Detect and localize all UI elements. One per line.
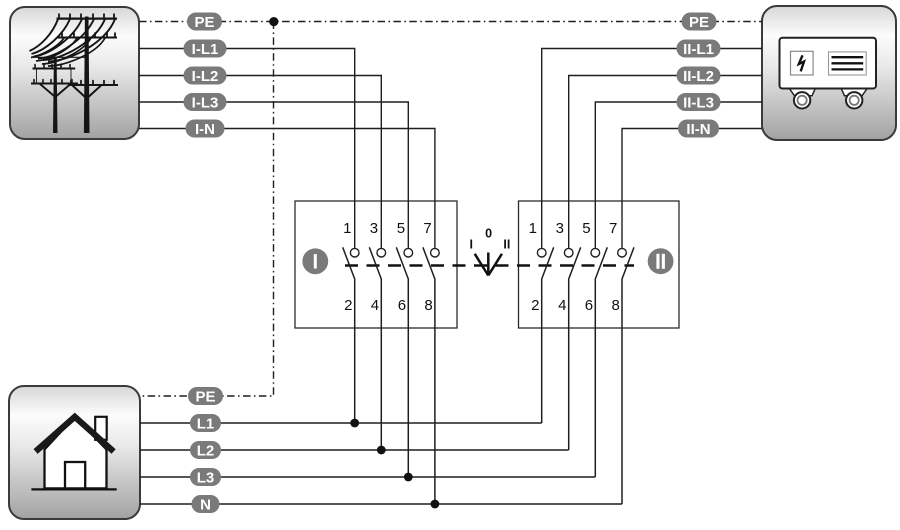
svg-text:1: 1 bbox=[343, 220, 351, 237]
svg-text:II-L3: II-L3 bbox=[683, 94, 714, 111]
junction node L3 bbox=[404, 473, 413, 482]
switch S-I contact circles bbox=[350, 248, 439, 257]
terminal pill PE (house) bbox=[188, 387, 223, 405]
wire II-L2 bbox=[569, 76, 762, 250]
switch S-I pole 5-6 blade bbox=[396, 247, 408, 477]
mechanical coupling link (dashed) bbox=[345, 264, 634, 266]
terminal pill L2 bbox=[190, 441, 221, 459]
pin numbers switch I top bbox=[343, 220, 432, 237]
utility grid source icon box bbox=[10, 7, 139, 139]
terminal pill I-L2 bbox=[184, 67, 227, 85]
PE junction dot bbox=[269, 17, 278, 26]
wire II-L1 bbox=[542, 49, 762, 250]
svg-text:5: 5 bbox=[582, 220, 590, 237]
wire PE grid-to-generator (dash-dot) bbox=[139, 21, 762, 23]
svg-text:I-L3: I-L3 bbox=[192, 94, 219, 111]
switch S-II pole 5-6 blade bbox=[595, 247, 607, 477]
svg-text:6: 6 bbox=[585, 297, 593, 314]
wire II-L3 bbox=[595, 102, 762, 249]
wire house L3 bbox=[140, 476, 595, 478]
junction node L2 bbox=[377, 446, 386, 455]
switch S-I pole 7-8 blade bbox=[423, 247, 435, 504]
wire I-L2 bbox=[139, 76, 381, 250]
terminal pill II-L2 bbox=[677, 67, 721, 85]
terminal pill I-L3 bbox=[184, 93, 227, 111]
svg-text:4: 4 bbox=[558, 297, 566, 314]
wire house L2 bbox=[140, 449, 569, 451]
pin numbers switch II top bbox=[529, 220, 618, 237]
svg-text:0: 0 bbox=[485, 226, 492, 240]
svg-text:1: 1 bbox=[529, 220, 537, 237]
svg-text:3: 3 bbox=[556, 220, 564, 237]
wire I-L1 bbox=[139, 49, 355, 250]
svg-text:5: 5 bbox=[397, 220, 405, 237]
svg-text:7: 7 bbox=[423, 220, 431, 237]
svg-text:3: 3 bbox=[370, 220, 378, 237]
terminal pill II-L1 bbox=[677, 40, 721, 58]
svg-text:4: 4 bbox=[371, 297, 379, 314]
svg-text:2: 2 bbox=[531, 297, 539, 314]
house load icon box bbox=[9, 386, 140, 519]
svg-text:PE: PE bbox=[195, 388, 215, 405]
svg-text:II-N: II-N bbox=[686, 121, 710, 138]
svg-text:II-L1: II-L1 bbox=[683, 41, 714, 58]
terminal pill L3 bbox=[190, 468, 221, 486]
wire II-N bbox=[622, 129, 762, 250]
svg-text:8: 8 bbox=[611, 297, 619, 314]
switch S-II pole 7-8 blade bbox=[622, 247, 634, 504]
wire I-N bbox=[139, 129, 435, 250]
svg-text:8: 8 bbox=[424, 297, 432, 314]
terminal pill L1 bbox=[190, 414, 221, 432]
position label II bbox=[503, 238, 510, 252]
terminal pill PE (generator) bbox=[682, 13, 717, 31]
pin numbers switch I bottom bbox=[344, 297, 433, 314]
switch S-II pole 1-2 blade bbox=[542, 247, 554, 423]
svg-text:I-L2: I-L2 bbox=[192, 68, 219, 85]
svg-text:PE: PE bbox=[194, 14, 214, 31]
svg-text:N: N bbox=[200, 496, 211, 513]
svg-text:L2: L2 bbox=[197, 442, 215, 459]
terminal pill I-L1 bbox=[184, 40, 227, 58]
junction node L1 bbox=[350, 419, 359, 428]
terminal pill I-N bbox=[186, 120, 225, 138]
switch S-II pole 3-4 blade bbox=[569, 247, 581, 450]
svg-text:II-L2: II-L2 bbox=[683, 68, 714, 85]
junction node N bbox=[431, 500, 440, 509]
svg-text:PE: PE bbox=[689, 14, 709, 31]
selector handle bbox=[475, 253, 502, 276]
svg-text:2: 2 bbox=[344, 297, 352, 314]
svg-text:I-N: I-N bbox=[195, 121, 215, 138]
generator source icon box bbox=[762, 6, 896, 140]
house drawing bbox=[31, 417, 116, 490]
svg-text:6: 6 bbox=[398, 297, 406, 314]
svg-text:7: 7 bbox=[609, 220, 617, 237]
switch II name badge bbox=[648, 248, 674, 274]
svg-text:II: II bbox=[503, 238, 510, 252]
switch S-I pole 3-4 blade bbox=[369, 247, 381, 450]
switch I name badge bbox=[302, 248, 328, 274]
wire house L1 bbox=[140, 422, 542, 424]
terminal pill II-N bbox=[678, 120, 719, 138]
wire PE drop to house (dash-dot) bbox=[140, 22, 274, 397]
svg-text:I-L1: I-L1 bbox=[192, 41, 219, 58]
terminal pill II-L3 bbox=[677, 93, 721, 111]
terminal pill PE (grid) bbox=[187, 13, 222, 31]
switch S-I pole 1-2 blade bbox=[343, 247, 355, 423]
switch S-II contact circles bbox=[537, 248, 626, 257]
terminal pill N bbox=[192, 495, 220, 513]
switch box II bbox=[519, 201, 680, 328]
svg-text:I: I bbox=[470, 238, 473, 252]
generator drawing bbox=[780, 38, 877, 109]
svg-text:L1: L1 bbox=[197, 415, 215, 432]
wire I-L3 bbox=[139, 102, 408, 249]
switch box I bbox=[295, 201, 457, 328]
position label 0 bbox=[485, 226, 492, 240]
utility grid pole drawing bbox=[30, 14, 119, 133]
svg-text:L3: L3 bbox=[197, 469, 215, 486]
pin numbers switch II bottom bbox=[531, 297, 620, 314]
position label I bbox=[470, 238, 473, 252]
wire house N bbox=[140, 503, 622, 505]
